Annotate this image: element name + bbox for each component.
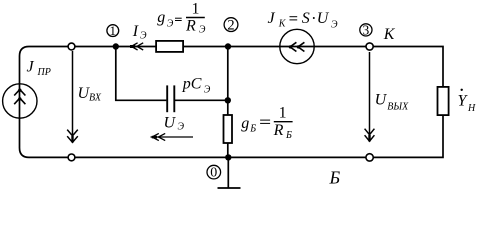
svg-text:U: U <box>375 91 388 108</box>
svg-text:K: K <box>383 26 396 43</box>
svg-text:3: 3 <box>363 22 370 37</box>
svg-text:1: 1 <box>110 23 117 38</box>
svg-text:Н: Н <box>467 103 476 114</box>
svg-text:ПР: ПР <box>37 67 51 78</box>
svg-text:ВХ: ВХ <box>89 93 102 104</box>
svg-text:Б: Б <box>329 168 341 188</box>
svg-text:К: К <box>278 19 287 30</box>
svg-text:J: J <box>27 59 35 76</box>
svg-text:0: 0 <box>210 166 217 181</box>
svg-text:Э: Э <box>204 85 211 96</box>
svg-text:J: J <box>268 10 276 27</box>
svg-text:Э: Э <box>140 31 147 42</box>
svg-text:2: 2 <box>227 17 234 33</box>
svg-text:I: I <box>132 23 139 40</box>
svg-text:R: R <box>185 17 196 34</box>
svg-text:g: g <box>241 115 249 132</box>
svg-text:pC: pC <box>182 76 202 93</box>
svg-text:S: S <box>302 10 310 27</box>
svg-text:U: U <box>164 115 177 132</box>
svg-text:Э: Э <box>331 19 338 30</box>
svg-text:ВЫХ: ВЫХ <box>387 102 409 113</box>
svg-text:Э: Э <box>178 122 185 133</box>
svg-text:Э: Э <box>199 25 206 36</box>
svg-text:Б: Б <box>285 130 292 141</box>
svg-text:Э: Э <box>167 19 174 30</box>
svg-text:R: R <box>273 122 284 139</box>
svg-text:1: 1 <box>279 105 287 122</box>
svg-text:U: U <box>317 10 330 27</box>
svg-text:g: g <box>157 9 165 26</box>
svg-text:1: 1 <box>192 1 200 18</box>
svg-text:Б: Б <box>249 124 256 135</box>
